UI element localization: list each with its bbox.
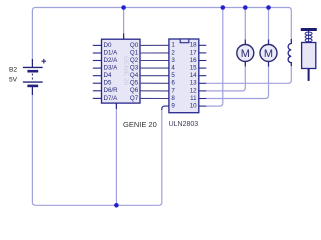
svg-text:ULN2803: ULN2803 — [169, 121, 199, 128]
svg-text:18: 18 — [190, 42, 197, 49]
svg-text:13: 13 — [190, 80, 197, 87]
svg-text:7: 7 — [171, 87, 175, 94]
ULN right pin stubs 18-10 — [199, 45, 207, 106]
svg-text:2: 2 — [171, 49, 175, 56]
svg-text:M: M — [241, 48, 250, 60]
junction node: ULN COM on top rail — [221, 5, 226, 10]
svg-text:6: 6 — [171, 80, 175, 87]
wire: Q6 to ULN pin7 — [140, 90, 169, 92]
solenoid L1 coil — [288, 39, 291, 66]
ULN right pin numbers 18-10 — [190, 42, 197, 110]
svg-text:11: 11 — [190, 95, 197, 102]
GENIE left input pin stubs D0-D7 — [93, 45, 102, 98]
wire: Q0 to ULN pin1 — [140, 44, 169, 46]
wire: motor M2 bottom to ULN pin11 — [206, 62, 268, 99]
svg-text:D7/A: D7/A — [104, 95, 119, 102]
battery B2 — [23, 59, 46, 95]
svg-text:D6/R: D6/R — [104, 87, 119, 94]
svg-text:Q0: Q0 — [130, 42, 139, 49]
GENIE top pin stub — [123, 34, 125, 40]
solenoid plunger stem — [308, 69, 310, 81]
wire: GENIE bottom 0V drop — [115, 103, 117, 205]
wire: motor M2 top — [268, 8, 270, 45]
wire: solenoid bottom to ULN pin13 — [206, 64, 291, 83]
motor M2 — [260, 40, 277, 67]
wire: bottom 0V rail — [32, 88, 161, 205]
svg-text:15: 15 — [190, 65, 197, 72]
wire: Q1 to ULN pin2 — [140, 52, 169, 54]
svg-text:Q7: Q7 — [130, 95, 139, 102]
svg-text:Q3: Q3 — [130, 65, 139, 72]
junction node: M2 on top rail — [266, 5, 271, 10]
svg-text:9: 9 — [171, 103, 175, 110]
junction node: M1 on top rail — [243, 5, 248, 10]
svg-text:M: M — [264, 48, 273, 60]
svg-text:Q5: Q5 — [130, 80, 139, 87]
svg-text:5V: 5V — [9, 77, 18, 84]
GENIE input pin labels — [104, 42, 119, 102]
wire: ULN pin10 COM to top rail — [206, 8, 223, 107]
solenoid armature spring — [305, 31, 312, 43]
svg-text:10: 10 — [190, 103, 197, 110]
op-amp U1 GENIE 20 body — [102, 39, 141, 103]
svg-text:D1/A: D1/A — [104, 49, 119, 56]
wire: Q5 to ULN pin6 — [140, 82, 169, 84]
wire: motor M1 top — [244, 8, 246, 45]
IC U2 ULN2803 body — [169, 39, 199, 113]
wire: Q4 to ULN pin5 — [140, 75, 169, 77]
svg-text:D2/A: D2/A — [104, 57, 119, 64]
wire: GENIE top supply drop — [123, 8, 125, 40]
svg-text:GENIE 20: GENIE 20 — [123, 120, 157, 129]
svg-text:D0: D0 — [104, 42, 112, 49]
GENIE bottom pin stub — [115, 103, 117, 109]
ULN pin9 stub to 0V — [162, 106, 169, 110]
svg-text:8: 8 — [171, 95, 175, 102]
wire: Q3 to ULN pin4 — [140, 67, 169, 69]
wire: Q2 to ULN pin3 — [140, 60, 169, 62]
svg-text:1: 1 — [171, 42, 175, 49]
GENIE output pin labels Q0-Q7 — [130, 42, 139, 102]
svg-text:14: 14 — [190, 72, 197, 79]
svg-text:Q2: Q2 — [130, 57, 139, 64]
svg-text:Q1: Q1 — [130, 49, 139, 56]
svg-text:D4: D4 — [104, 72, 112, 79]
junction node: GENIE 0V on bottom rail — [114, 203, 119, 208]
junction node: GENIE supply on top rail — [121, 5, 126, 10]
svg-text:Q4: Q4 — [130, 72, 139, 79]
svg-text:B2: B2 — [9, 67, 17, 74]
svg-text:Q6: Q6 — [130, 87, 139, 94]
svg-text:3: 3 — [171, 57, 175, 64]
motor M1 — [237, 40, 254, 67]
svg-text:12: 12 — [190, 87, 197, 94]
solenoid armature T-bar — [301, 28, 317, 31]
wire: top positive rail — [32, 8, 291, 65]
solenoid plunger body — [302, 43, 316, 69]
svg-text:16: 16 — [190, 57, 197, 64]
svg-text:4: 4 — [171, 65, 175, 72]
wire: motor M1 bottom to ULN pin12 — [206, 62, 245, 91]
svg-text:5: 5 — [171, 72, 175, 79]
ULN2803 notch — [180, 39, 189, 43]
svg-text:17: 17 — [190, 49, 197, 56]
svg-text:D5: D5 — [104, 80, 112, 87]
svg-text:GENIE 20: GENIE 20 — [122, 56, 129, 86]
ULN left pin numbers 1-9 — [171, 42, 175, 110]
svg-text:D3/A: D3/A — [104, 65, 119, 72]
wire: Q7 to ULN pin8 — [140, 97, 169, 99]
